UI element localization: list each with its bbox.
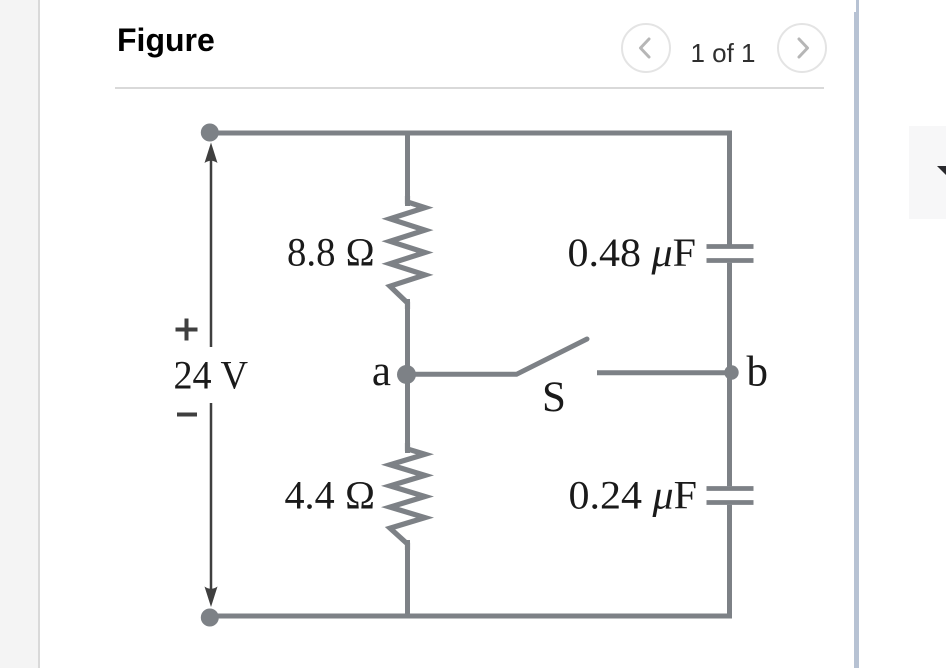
wire bottom [207, 614, 732, 619]
capacitor C2 0.24uF plates [707, 489, 754, 503]
next page button [777, 23, 827, 73]
left gutter panel [0, 0, 38, 668]
battery arrow shaft lower [210, 403, 213, 594]
svg-text:a: a [372, 348, 391, 395]
wire right middle [727, 263, 732, 487]
wire middle between node a and R2 [405, 373, 410, 453]
header separator line [115, 87, 824, 89]
node a dot [397, 365, 416, 384]
right panel divider bar [854, 12, 860, 668]
svg-text:0.24 μF: 0.24 μF [569, 473, 698, 518]
svg-text:b: b [747, 349, 769, 396]
resistor R2 4.4 ohm [390, 443, 425, 550]
switch wire from node a and lever [416, 339, 587, 374]
left gutter border line [38, 0, 40, 668]
battery arrow shaft upper [210, 155, 213, 347]
battery arrow head up [205, 143, 218, 164]
node top left junction dot [201, 124, 219, 142]
right panel divider bar top sliver [856, 0, 859, 12]
svg-text:4.4 Ω: 4.4 Ω [285, 473, 376, 518]
right panel collapse triangle [937, 166, 946, 177]
wire middle between R1 and node a [405, 299, 410, 376]
wire top [207, 131, 732, 136]
svg-text:8.8 Ω: 8.8 Ω [287, 230, 375, 275]
svg-text:0.48 μF: 0.48 μF [568, 230, 697, 275]
wire middle upper [405, 131, 410, 206]
right collapsed panel box [909, 126, 946, 219]
previous page button [621, 23, 671, 73]
capacitor C1 0.48uF plates [707, 247, 754, 261]
plus sign [176, 319, 198, 341]
wire middle lower [405, 540, 410, 618]
node b dot [724, 365, 738, 379]
minus sign [177, 413, 197, 417]
page indicator 1 of 1 [660, 38, 786, 69]
switch contact wire to node b [597, 370, 726, 375]
svg-text:S: S [542, 374, 566, 421]
svg-text:24 V: 24 V [174, 353, 249, 398]
Figure title [117, 22, 215, 59]
wire right upper [727, 131, 732, 245]
resistor R1 8.8 ohm [390, 196, 425, 309]
wire right lower [727, 505, 732, 619]
battery arrow head down [205, 587, 218, 608]
node bottom left junction dot [201, 609, 219, 627]
